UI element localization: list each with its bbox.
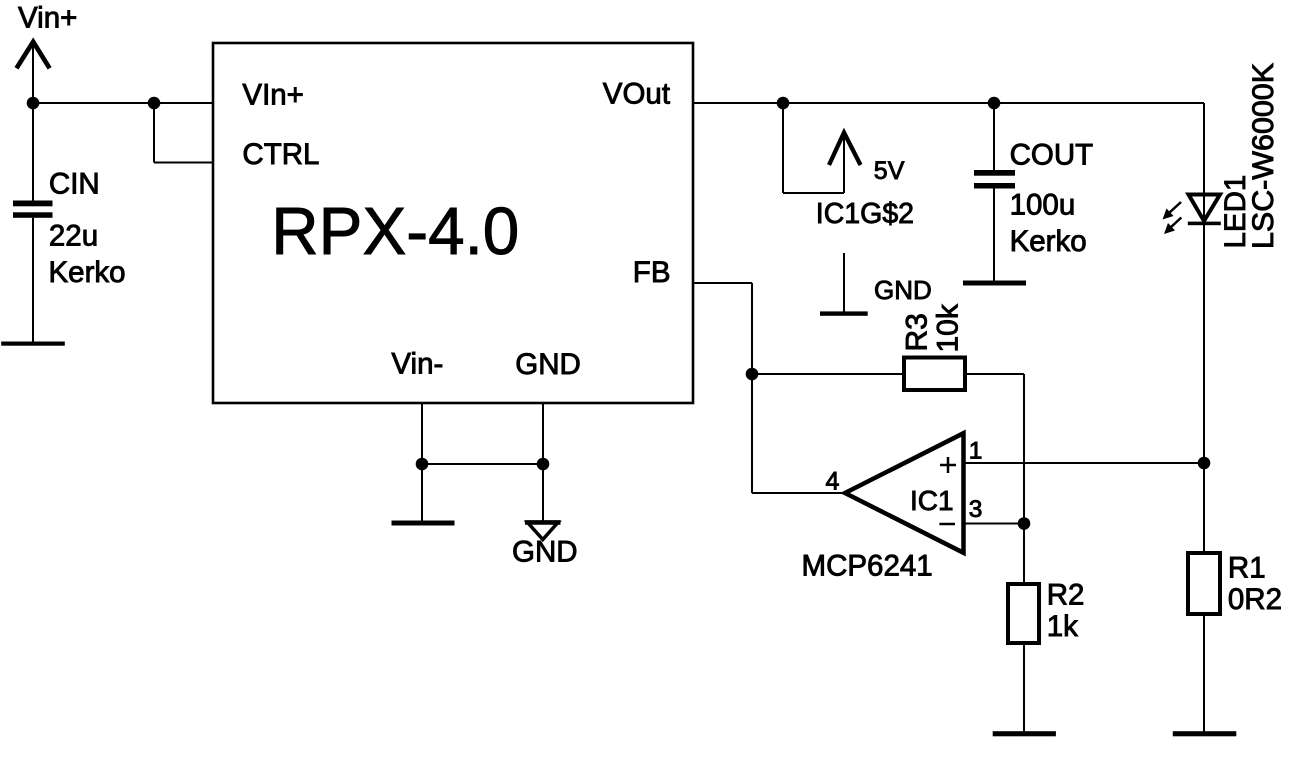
svg-text:3: 3 [969,496,983,523]
svg-text:IC1: IC1 [910,485,954,516]
wire LED branch vertical [1203,103,1205,463]
wire 5V branch horizontal [783,192,844,194]
supply symbol 5V arrow [829,133,861,193]
LED light arrow upper [1163,202,1182,220]
svg-text:FB: FB [633,256,671,289]
svg-text:1k: 1k [1047,610,1078,643]
svg-text:GND: GND [515,348,581,381]
wire op-amp pin 1 [962,462,1204,464]
resistor R2 [1008,584,1039,643]
IC U1 RPX-4.0 box [213,43,693,403]
wire joining Vin- and GND pins [422,463,543,465]
svg-text:MCP6241: MCP6241 [802,550,933,583]
junction VIN+ at CIN [27,97,40,110]
svg-text:Vin-: Vin- [391,348,443,381]
wire op-amp pin 4 [752,492,845,494]
supply symbol VIN+ arrow [17,42,50,103]
resistor R1 [1188,553,1220,614]
ground bar under R2 [993,731,1056,736]
wire CTRL vertical [153,103,155,163]
capacitor COUT [974,170,1015,189]
svg-text:10k: 10k [932,303,965,352]
capacitor CIN [13,201,53,218]
ground bar under Vin- [392,521,455,526]
wire 5V branch vertical [782,103,784,193]
junction VOUT at 5V branch [777,97,790,110]
LED LED1 [1188,195,1221,226]
junction VIN+ at CTRL branch [148,97,161,110]
wire R3 right [965,373,1024,375]
wire Vin- pin vertical [421,403,423,464]
svg-text:22u: 22u [49,220,98,253]
wire GND pin vertical [542,403,544,464]
ground bar under CIN [1,342,65,346]
svg-text:CIN: CIN [49,168,100,201]
wire COUT top [993,103,995,170]
junction FB at R3 branch [746,368,759,381]
wire R1 top [1203,463,1205,553]
junction Vin- [416,458,429,471]
wire R1 to ground [1203,614,1205,732]
svg-text:R1: R1 [1228,551,1266,584]
wire CIN top [32,103,34,201]
svg-text:100u: 100u [1010,189,1076,222]
wire R3 left [752,373,904,375]
wire vertical R3 to R2 [1023,374,1025,584]
op-amp minus input mark [939,523,955,526]
svg-text:5V: 5V [874,157,905,185]
junction pin 3 at R2 [1018,517,1031,530]
LED light arrow lower [1164,218,1181,235]
wire FB horizontal [693,282,752,284]
ground symbol at IC1G$2 [820,253,868,316]
svg-text:Kerko: Kerko [49,256,126,289]
wire FB vertical [751,283,753,493]
ground bar under COUT [963,281,1026,286]
svg-text:CTRL: CTRL [242,138,319,171]
junction GND [537,458,550,471]
wire VIN+ net horizontal to IC [33,102,213,104]
wire GND pin to ground symbol [542,464,544,522]
svg-text:Vin+: Vin+ [18,2,77,35]
svg-text:R2: R2 [1047,578,1085,611]
svg-text:0R2: 0R2 [1228,583,1282,616]
wire VOUT net horizontal [693,102,1204,104]
svg-text:1: 1 [969,438,983,465]
junction pin 1 at LED / R1 [1198,457,1211,470]
svg-text:4: 4 [826,468,840,496]
ground symbol GND triangle [525,522,561,539]
op-amp IC1 triangle [845,433,964,553]
wire CTRL horizontal [154,162,213,164]
wire op-amp pin 3 [962,523,1024,525]
svg-text:RPX-4.0: RPX-4.0 [271,194,519,269]
wire COUT bottom [993,189,995,282]
svg-text:GND: GND [874,275,932,305]
svg-text:IC1G$2: IC1G$2 [816,198,914,230]
wire R2 to ground [1023,643,1025,732]
wire CIN bottom [32,218,34,343]
op-amp plus input mark [940,457,956,473]
resistor R3 [904,358,965,391]
svg-text:LSC-W6000K: LSC-W6000K [1247,63,1280,249]
svg-text:R3: R3 [901,313,934,351]
svg-text:Kerko: Kerko [1010,225,1087,258]
svg-text:COUT: COUT [1010,139,1094,172]
ground bar under R1 [1173,731,1237,736]
svg-text:VOut: VOut [603,78,670,111]
svg-text:VIn+: VIn+ [242,79,304,112]
svg-text:GND: GND [512,536,578,569]
junction VOUT at COUT [988,97,1001,110]
wire Vin- to ground [421,464,423,521]
